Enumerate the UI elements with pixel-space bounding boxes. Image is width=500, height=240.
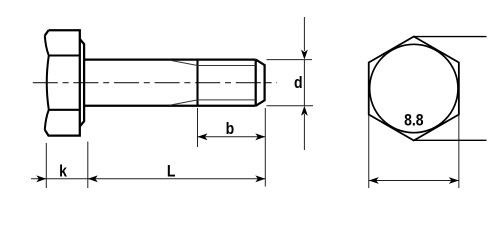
svg-text:L: L bbox=[167, 162, 176, 180]
svg-text:d: d bbox=[294, 74, 303, 92]
svg-text:k: k bbox=[59, 162, 67, 180]
svg-text:8.8: 8.8 bbox=[404, 111, 424, 129]
svg-text:b: b bbox=[226, 120, 235, 138]
